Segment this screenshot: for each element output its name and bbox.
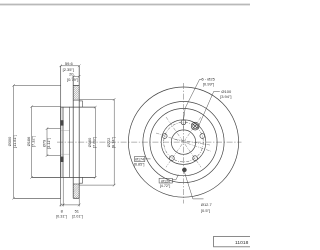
svg-text:20: 20 [69,71,74,76]
svg-text:[0.79"]: [0.79"] [67,77,78,82]
svg-text:[11.81"]: [11.81"] [12,135,17,148]
svg-text:[0.99"]: [0.99"] [203,81,214,86]
svg-text:59.6: 59.6 [65,61,74,66]
svg-text:[7.32"]: [7.32"] [30,136,35,147]
svg-text:[6.85"]: [6.85"] [134,162,145,166]
svg-text:8: 8 [61,208,64,213]
svg-text:11018: 11018 [235,240,249,246]
svg-text:Ø120: Ø120 [161,179,170,183]
svg-text:Ø174: Ø174 [135,158,144,162]
svg-text:[2.01"]: [2.01"] [72,214,83,218]
svg-text:[3.11"]: [3.11"] [46,138,51,149]
svg-text:51: 51 [75,208,80,213]
svg-text:Ø12.7: Ø12.7 [201,202,213,207]
svg-text:[8.74"]: [8.74"] [110,137,115,148]
svg-text:[0.31"]: [0.31"] [56,214,67,218]
svg-text:[3.94"]: [3.94"] [220,94,231,99]
svg-text:[4.72"]: [4.72"] [160,184,171,188]
svg-text:[0.5"]: [0.5"] [201,208,210,213]
svg-text:[7.09"]: [7.09"] [92,137,97,148]
